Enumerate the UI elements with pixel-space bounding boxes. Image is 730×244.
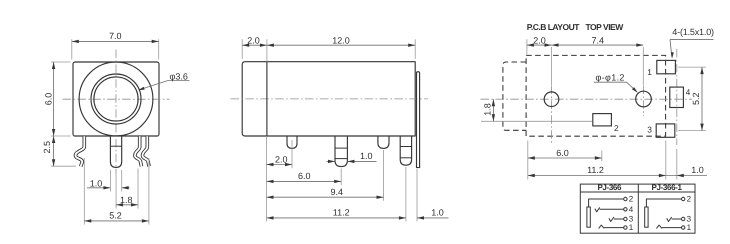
svg-text:9.4: 9.4	[331, 187, 344, 197]
svg-text:1.0: 1.0	[360, 151, 373, 161]
svg-text:2: 2	[687, 195, 692, 204]
svg-text:4-(1.5x1.0): 4-(1.5x1.0)	[672, 27, 714, 37]
svg-text:φ3.6: φ3.6	[170, 71, 188, 81]
svg-text:11.2: 11.2	[333, 208, 350, 218]
svg-text:12.0: 12.0	[332, 35, 350, 45]
svg-text:6.0: 6.0	[298, 171, 311, 181]
svg-text:PJ-366: PJ-366	[597, 183, 622, 192]
svg-text:5.2: 5.2	[691, 93, 701, 106]
svg-text:1: 1	[647, 67, 652, 77]
svg-text:1: 1	[687, 223, 692, 232]
svg-text:6.0: 6.0	[43, 93, 53, 106]
svg-text:1.8: 1.8	[120, 195, 133, 205]
svg-text:4: 4	[629, 205, 634, 214]
svg-text:2: 2	[629, 195, 634, 204]
svg-text:4: 4	[686, 87, 691, 97]
svg-text:5.2: 5.2	[109, 210, 122, 220]
svg-text:1.0: 1.0	[90, 178, 103, 188]
svg-text:7.0: 7.0	[109, 31, 122, 41]
svg-text:2.0: 2.0	[275, 155, 288, 165]
svg-text:φ-φ1.2: φ-φ1.2	[596, 73, 625, 83]
svg-text:11.2: 11.2	[587, 165, 604, 175]
svg-text:1: 1	[629, 223, 634, 232]
svg-text:TOP VIEW: TOP VIEW	[586, 22, 625, 32]
svg-text:2: 2	[614, 123, 619, 133]
svg-text:6.0: 6.0	[556, 148, 569, 158]
svg-text:PJ-366-1: PJ-366-1	[652, 183, 683, 192]
svg-text:2.5: 2.5	[42, 141, 52, 154]
svg-text:1.0: 1.0	[691, 165, 704, 175]
svg-text:2.0: 2.0	[533, 35, 546, 45]
svg-text:1.0: 1.0	[431, 208, 444, 218]
svg-text:P.C.B LAYOUT: P.C.B LAYOUT	[527, 22, 580, 32]
svg-text:1.8: 1.8	[483, 103, 493, 116]
svg-text:3: 3	[647, 125, 652, 135]
svg-text:2.0: 2.0	[247, 35, 260, 45]
svg-text:7.4: 7.4	[592, 35, 605, 45]
